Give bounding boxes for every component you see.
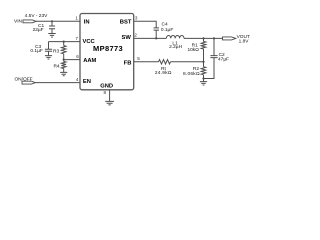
svg-text:4.5V - 23V: 4.5V - 23V xyxy=(25,13,48,19)
svg-text:24.9kΩ: 24.9kΩ xyxy=(155,70,172,76)
svg-text:R4: R4 xyxy=(53,64,59,70)
svg-text:2.2µH: 2.2µH xyxy=(169,44,182,50)
svg-text:ON/OFF: ON/OFF xyxy=(14,76,32,82)
svg-text:7: 7 xyxy=(75,36,78,41)
svg-text:BST: BST xyxy=(120,19,132,25)
svg-text:1: 1 xyxy=(75,16,78,21)
svg-text:R3: R3 xyxy=(53,48,59,54)
svg-text:0.1µF: 0.1µF xyxy=(30,48,42,54)
svg-text:EN: EN xyxy=(83,79,91,85)
svg-text:22µF: 22µF xyxy=(33,27,44,33)
svg-text:5: 5 xyxy=(137,56,140,61)
svg-text:FB: FB xyxy=(124,60,132,66)
svg-text:10kΩ: 10kΩ xyxy=(187,47,199,53)
svg-text:8.06kΩ: 8.06kΩ xyxy=(183,71,200,77)
svg-text:3: 3 xyxy=(135,15,138,20)
svg-text:SW: SW xyxy=(121,35,131,41)
svg-text:GND: GND xyxy=(100,84,113,90)
svg-text:8: 8 xyxy=(103,90,106,95)
svg-text:AAM: AAM xyxy=(83,58,96,64)
svg-text:4: 4 xyxy=(76,77,79,82)
svg-text:0.1µF: 0.1µF xyxy=(161,27,173,33)
svg-text:47µF: 47µF xyxy=(218,57,229,63)
svg-text:6: 6 xyxy=(76,54,79,59)
svg-text:VIN: VIN xyxy=(14,18,23,24)
svg-text:C4: C4 xyxy=(162,22,168,28)
svg-text:2: 2 xyxy=(134,32,137,37)
svg-text:R2: R2 xyxy=(193,66,199,72)
svg-text:1.8V: 1.8V xyxy=(239,38,250,44)
svg-text:MP8773: MP8773 xyxy=(93,44,123,53)
svg-text:IN: IN xyxy=(84,20,90,26)
